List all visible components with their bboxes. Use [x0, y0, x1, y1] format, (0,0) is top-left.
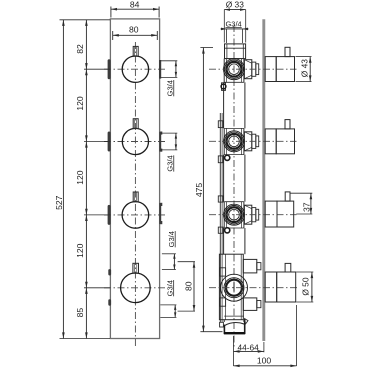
row2 handle grip — [276, 129, 294, 154]
dim 80 arrow left — [113, 34, 119, 37]
row2 centerline — [104, 141, 166, 143]
row2 block B — [252, 134, 256, 148]
valve circle row3 — [224, 204, 245, 225]
stem 1 — [133, 46, 138, 56]
dim 84 extension right — [158, 7, 160, 18]
row4 handle base — [265, 272, 277, 302]
outlet B dim ext bottom — [160, 316, 176, 318]
left small nub row4 upper — [108, 269, 111, 275]
row4 port upper block — [243, 259, 256, 273]
dim 80 arrow right — [151, 34, 157, 37]
rail screw tab r2a — [218, 121, 223, 128]
row2 block A — [244, 132, 251, 151]
row4 body — [219, 254, 243, 320]
row1 handle grip — [276, 57, 294, 82]
bottom left tab — [220, 322, 224, 327]
left port tab row3 — [108, 205, 111, 225]
row2 handle base — [265, 129, 276, 154]
row4 body inner left — [225, 254, 227, 320]
svg-text:G3/4: G3/4 — [167, 231, 176, 247]
dim Ø43 ext top — [296, 56, 312, 58]
front plate outline — [110, 19, 159, 339]
segment arrows — [85, 20, 88, 26]
joint line row3 top — [224, 201, 244, 203]
screw row1 — [221, 84, 226, 89]
svg-text:100: 100 — [257, 356, 272, 366]
svg-text:527: 527 — [54, 195, 64, 210]
row3 block B — [252, 208, 256, 222]
bottom cap dark edge — [224, 332, 245, 334]
svg-text:Ø 33: Ø 33 — [226, 0, 244, 9]
top port thread line right — [242, 44, 244, 59]
outlet A dim ext top — [162, 253, 176, 255]
G3/4 top ext right — [241, 29, 243, 43]
row4 screw tab left lower — [220, 298, 226, 306]
rail screw tab r3a — [218, 196, 223, 202]
svg-text:475: 475 — [194, 183, 204, 198]
row2 neck — [256, 136, 259, 147]
left port tab row2 — [108, 132, 111, 152]
dim Ø50 ext top — [296, 271, 313, 273]
G3/4 dim row1 ext bottom — [160, 76, 177, 78]
FRONT VIEW — [54, 0, 195, 346]
row1 block A chamfer — [244, 60, 251, 64]
dim 37 line — [310, 193, 312, 214]
G3/4 dim row1 line — [175, 61, 177, 78]
manifold coupling row1-row2 — [223, 82, 225, 128]
left small nub row4 lower — [108, 299, 111, 305]
row2 centerline h — [209, 140, 297, 142]
vertical centerline — [134, 42, 136, 346]
dim 100 ext right — [296, 305, 298, 366]
stem 2 — [133, 119, 138, 129]
G3/4 dim row1 ext top — [160, 60, 177, 62]
knob circle 4 — [121, 273, 151, 303]
row1 centerline — [104, 68, 166, 70]
manifold valve section row1 — [223, 59, 225, 83]
manifold valve section row3 — [223, 202, 225, 228]
svg-text:120: 120 — [75, 170, 85, 185]
dim 44-64 ext right (wall) — [263, 342, 265, 352]
dim Ø50 line — [311, 272, 313, 302]
svg-text:37: 37 — [302, 202, 312, 212]
row3 neck — [256, 209, 259, 220]
svg-text:G3/4: G3/4 — [165, 80, 174, 96]
joint line row1 bottom — [224, 81, 244, 83]
dim 527 top extension — [60, 19, 111, 21]
G3/4 dim row2 line — [175, 133, 177, 150]
svg-text:82: 82 — [75, 44, 85, 54]
SIDE VIEW — [194, 0, 313, 367]
knob circle 3 — [122, 202, 149, 229]
svg-text:80: 80 — [183, 281, 193, 291]
bottom cap right nub — [245, 319, 248, 324]
bottom cap joint — [224, 315, 244, 317]
svg-text:80: 80 — [129, 25, 139, 35]
row1 neck — [256, 64, 259, 75]
dim 37 ext top — [290, 192, 312, 194]
screw row3 — [225, 228, 230, 233]
left port tab row1 — [108, 59, 111, 79]
dim 84 extension left — [110, 7, 112, 18]
joint line row2 top — [224, 127, 244, 129]
bottom cap crown curve — [224, 322, 244, 325]
svg-text:Ø 50: Ø 50 — [301, 277, 311, 295]
dim Ø43 ext bottom — [296, 81, 312, 83]
dim 527 arrow top — [62, 20, 65, 26]
dim Ø50 ext bottom — [296, 301, 313, 303]
side vertical centerline — [233, 25, 235, 348]
row4 centerline h — [209, 287, 298, 289]
row1 centerline h — [209, 68, 297, 70]
row2 handle nub — [285, 120, 290, 129]
dim Ø43 line — [309, 57, 311, 82]
joint line row2 bottom — [224, 154, 244, 156]
bottom cap cup — [224, 319, 244, 334]
manifold coupling row3-row4 — [223, 228, 225, 254]
row4 body inner right — [240, 254, 242, 320]
valve circle row2 — [224, 131, 245, 152]
outlet A dim ext bottom — [162, 269, 176, 271]
row4 port lower block — [243, 298, 256, 311]
svg-text:85: 85 — [75, 308, 85, 318]
dim 475 line — [202, 48, 204, 332]
top port thread end — [225, 47, 246, 49]
G3/4 top arrows outside — [221, 28, 227, 31]
stem 3 — [133, 192, 138, 202]
dim 527 bottom extension — [60, 338, 111, 340]
dim 100 line — [234, 365, 297, 367]
segment dim line — [85, 20, 87, 339]
valve circle row1 — [224, 59, 245, 80]
row1 block A — [244, 60, 251, 79]
dim 80 outlets ext bottom — [178, 310, 195, 312]
dim 84 line — [111, 8, 159, 10]
stem 4 — [133, 263, 139, 273]
segment ext row1 — [84, 68, 110, 70]
rail screw tab r1 — [222, 83, 226, 91]
manifold valve section row2 — [223, 128, 225, 154]
row1 handle nub — [285, 47, 290, 56]
manifold top edge — [224, 58, 244, 60]
dim Ø33 line — [224, 9, 245, 11]
joint line row3 bottom — [224, 227, 244, 229]
row4 screw tab left upper — [220, 268, 226, 276]
segment ext row4 — [84, 287, 110, 289]
G3/4 top dim line — [221, 28, 249, 30]
row3 centerline — [104, 214, 166, 216]
row3 block A — [244, 205, 251, 224]
dim 475 ext bottom — [200, 331, 222, 333]
dim 80 ext ticks — [112, 31, 114, 40]
dim 84 arrow left — [111, 8, 117, 11]
svg-text:G3/4: G3/4 — [225, 19, 241, 28]
dim 84 arrow right — [153, 8, 159, 11]
right port tab row3 — [159, 203, 161, 224]
screw row2 — [225, 155, 230, 160]
svg-text:44-64: 44-64 — [237, 342, 259, 352]
manifold below row4 — [223, 320, 225, 322]
row4 port upper plug — [257, 263, 261, 270]
row3 handle grip — [277, 201, 294, 227]
G3/4 dim row2 ext bottom — [160, 149, 177, 151]
knob circle 1 — [122, 56, 148, 82]
segment ext row2 — [84, 141, 110, 143]
dim 527 arrow bottom — [62, 332, 65, 338]
knob circle 2 — [122, 128, 148, 154]
row3 handle nub — [285, 192, 290, 201]
dim 80 line — [113, 34, 158, 36]
svg-text:84: 84 — [130, 0, 140, 10]
row3 handle base — [265, 201, 277, 227]
G3/4 dim row2 ext top — [160, 132, 177, 134]
dim Ø33 ext left — [223, 10, 225, 43]
right port edge row1 — [159, 60, 161, 79]
dim Ø33 ext right — [245, 10, 247, 43]
row4 handle grip — [277, 272, 296, 302]
outlet B dim line — [174, 305, 176, 318]
rail screw tab r3b — [218, 227, 223, 233]
row4 handle nub — [285, 263, 291, 272]
thermo valve circle row4 — [221, 274, 248, 301]
rail screw tab r2b — [218, 156, 223, 163]
row4 port lower plug — [257, 301, 261, 308]
top port pipe — [225, 44, 246, 59]
svg-text:120: 120 — [75, 243, 85, 258]
row1 handle base — [265, 57, 276, 82]
row4 centerline — [104, 287, 166, 289]
svg-text:G3/4: G3/4 — [165, 280, 174, 296]
outlet A dim line — [173, 254, 175, 270]
dim 37 ext bottom — [296, 213, 312, 215]
wall line — [262, 19, 265, 341]
segment ext row3 — [84, 214, 110, 216]
right port tab row2 — [159, 132, 161, 152]
row1 block B — [252, 62, 256, 76]
svg-text:Ø 43: Ø 43 — [300, 59, 310, 77]
svg-text:G3/4: G3/4 — [165, 155, 174, 171]
outlet B dim ext top — [160, 304, 176, 306]
row3 centerline h — [209, 214, 297, 216]
manifold coupling row2-row3 — [223, 155, 225, 202]
dim 44-64 line — [234, 350, 264, 352]
dim 80 outlets line — [193, 262, 195, 311]
dim 527 line — [62, 20, 64, 339]
svg-text:120: 120 — [75, 96, 85, 111]
dim 44-64 ext left (axis) — [233, 336, 235, 366]
dim 80 outlets ext top — [178, 261, 195, 263]
dim 475 ext top — [200, 47, 213, 49]
mounting rail — [219, 113, 221, 322]
top port thread line left — [226, 44, 228, 59]
G3/4 top ext left — [226, 29, 228, 43]
